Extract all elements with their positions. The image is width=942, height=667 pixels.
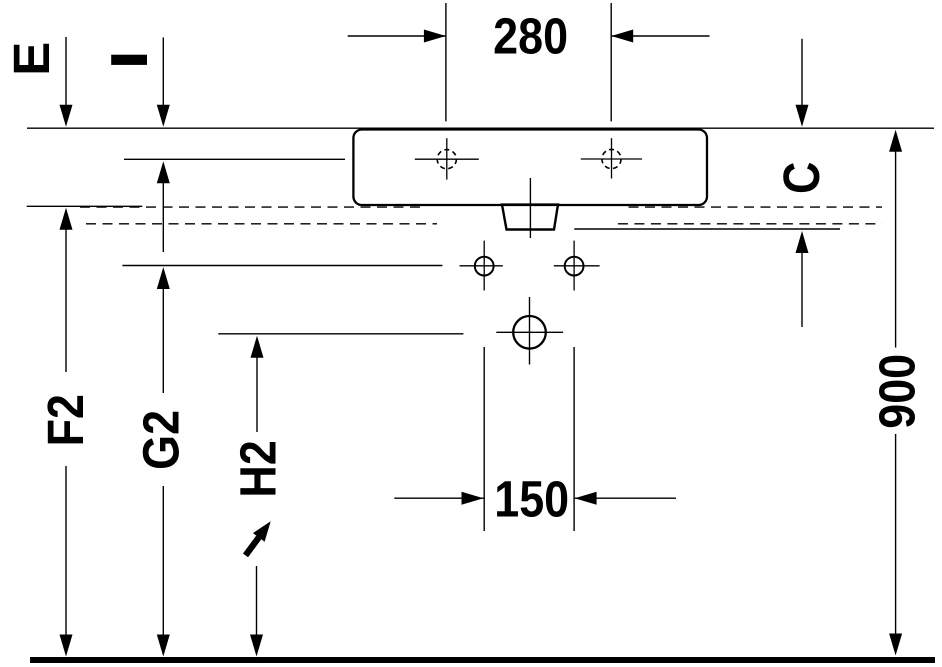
F2 arrowhead up <box>60 208 73 230</box>
dashed hidden line A left part <box>80 206 422 208</box>
supply holes height line <box>122 265 442 267</box>
svg-text:150: 150 <box>494 472 569 528</box>
dimension label 900 <box>870 354 926 429</box>
H2 arrowhead down at floor <box>250 635 263 657</box>
900 line upper <box>895 151 897 348</box>
I arrow line <box>162 38 164 106</box>
left faucet crosshair horizontal <box>415 158 479 160</box>
right faucet crosshair horizontal <box>581 158 642 160</box>
svg-text:F2: F2 <box>38 394 94 446</box>
H2 line upper <box>256 357 258 432</box>
150 extension line right <box>573 347 575 531</box>
drain center line upper <box>529 178 531 238</box>
900 arrowhead up <box>889 130 902 152</box>
svg-text:C: C <box>774 162 830 194</box>
dimension label F2 <box>38 394 94 446</box>
left supply hole circle <box>475 257 494 276</box>
left faucet hole dashed circle <box>437 150 456 169</box>
H2 arrowhead up <box>251 336 264 358</box>
280 dim arrow left <box>348 30 446 43</box>
siphon circle <box>513 316 546 349</box>
svg-text:900: 900 <box>870 354 926 429</box>
svg-text:G2: G2 <box>134 410 190 470</box>
washbasin body <box>353 130 707 206</box>
280 dim arrow right <box>611 30 709 43</box>
svg-text:280: 280 <box>493 9 568 65</box>
280 extension line left <box>445 3 447 121</box>
left supply hole crosshair vertical <box>483 241 485 291</box>
siphon center line <box>529 297 531 365</box>
dimension label C <box>774 162 830 194</box>
right faucet crosshair vertical <box>611 138 613 178</box>
right supply hole crosshair horizontal <box>554 265 600 267</box>
rim top line <box>27 127 934 129</box>
F2 line lower <box>65 466 67 636</box>
F2 target solid line <box>27 205 143 207</box>
dimension label H2 <box>231 440 287 497</box>
150 dim arrow right <box>575 492 676 505</box>
H2 line lower <box>256 566 258 636</box>
C arrow line lower <box>801 252 803 327</box>
faucet hole height line <box>124 158 345 160</box>
G2 line upper <box>162 288 164 393</box>
dimension label I <box>111 55 147 65</box>
dashed hidden line A right part <box>629 206 883 208</box>
svg-text:H2: H2 <box>231 440 287 497</box>
C arrowhead up <box>796 231 809 253</box>
right supply hole circle <box>565 257 584 276</box>
left supply hole crosshair horizontal <box>460 265 503 267</box>
E arrowhead down <box>60 105 73 127</box>
G2 mid line <box>162 182 164 252</box>
150 extension line left <box>483 347 485 531</box>
outlet direction bold arrow <box>246 521 271 555</box>
dimension label 280 <box>493 9 568 65</box>
dashed hidden line B left part <box>86 223 437 225</box>
H2 target line <box>218 333 463 335</box>
150 dim arrow left <box>394 492 483 505</box>
900 line lower <box>895 434 897 635</box>
right supply hole crosshair vertical <box>573 241 575 291</box>
G2 mid arrowhead up <box>157 161 170 183</box>
dimension label G2 <box>134 410 190 470</box>
F2 line upper <box>65 229 67 372</box>
F2 arrowhead down at floor <box>60 635 73 657</box>
svg-text:E: E <box>3 42 60 76</box>
C arrowhead down <box>796 105 809 127</box>
dimension label E <box>3 42 60 76</box>
drain trapezoid <box>502 205 558 230</box>
C arrow line upper <box>801 39 803 106</box>
drain outlet level line <box>574 228 840 230</box>
G2 arrowhead up <box>157 267 170 289</box>
G2 line lower <box>162 486 164 636</box>
siphon crosshair horizontal <box>496 331 563 333</box>
280 extension line right <box>610 3 612 121</box>
900 arrowhead down at floor <box>889 634 902 656</box>
E arrow line <box>65 37 67 106</box>
I arrowhead down <box>157 105 170 127</box>
right faucet hole dashed circle <box>602 149 621 168</box>
left faucet crosshair vertical <box>446 138 448 179</box>
G2 arrowhead down at floor <box>157 635 170 657</box>
dashed hidden line B right part <box>618 223 882 225</box>
dimension label 150 <box>494 472 569 528</box>
floor line <box>30 657 935 663</box>
